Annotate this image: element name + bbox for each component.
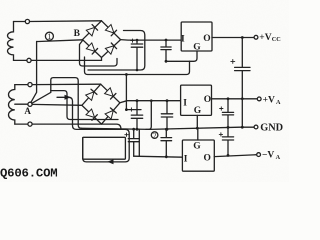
wire winding2 top lead <box>15 84 28 86</box>
node 2 circled label <box>151 132 158 140</box>
junction C1 top <box>136 39 139 42</box>
label +Vcc <box>259 33 280 43</box>
wire U2 output to +VA <box>212 98 258 100</box>
arrowhead left on annotation <box>107 159 113 164</box>
wire net1 riser down to center tap <box>31 42 37 103</box>
op-amp regulator U3 box <box>182 140 214 171</box>
junction C9 bottom <box>165 155 168 158</box>
capacitor C2 leads and plates <box>161 40 171 61</box>
wire vertical link ground to -VA input <box>138 129 140 156</box>
wire bridge1 DC+ to regulator U1 input <box>121 39 182 42</box>
wire U3 ground pin <box>197 128 199 140</box>
junction C5 top <box>166 99 169 102</box>
junction link top <box>150 99 153 102</box>
junction C5 bottom <box>166 128 169 131</box>
plus sign C1 <box>131 39 134 42</box>
wire bridge1 bottom vertex stub <box>101 58 103 61</box>
junction C3 at +VA rail <box>241 97 244 100</box>
wire winding1 bottom lead <box>14 59 27 61</box>
plus sign C7 <box>219 133 222 136</box>
junction C4 bottom <box>136 128 139 131</box>
junction C2 top <box>165 39 168 42</box>
winding T1 secondary coil <box>9 85 15 125</box>
wire current-path annotation with arrow <box>57 97 129 162</box>
junction net1 under bridge <box>125 73 128 76</box>
wire net1 long run under bridge1 <box>85 57 190 75</box>
wire winding1 top to bridge1 AC top <box>30 20 102 23</box>
junction C3 at ground <box>241 126 244 129</box>
wire winding2 bottom to bridge2 AC bottom <box>32 124 121 129</box>
label -VA <box>262 151 281 161</box>
terminal winding1 bottom <box>27 58 31 62</box>
terminal +VA <box>257 97 261 101</box>
junction C6 at ground <box>227 126 230 129</box>
annotation load box <box>83 137 126 159</box>
wire C3 negative to ground rail <box>241 99 243 127</box>
terminal winding2 top <box>28 83 32 87</box>
wire U1 ground pin elbow <box>166 51 197 61</box>
plus sign C8 <box>125 133 128 136</box>
wire -VA raw input to U3 <box>134 156 183 157</box>
label +VA <box>263 95 281 105</box>
diode D1 <box>86 25 97 36</box>
wire winding1 bottom to bridge1 AC bottom <box>31 59 101 61</box>
terminal winding2 center tap A <box>28 102 32 106</box>
capacitor C3 on +Vcc with leads <box>235 38 250 99</box>
wire net2 center tap riser <box>32 78 82 129</box>
terminal GND <box>254 125 258 129</box>
diode D2 <box>105 25 116 36</box>
junction +Vcc cap <box>241 36 244 39</box>
bridge rectifier D1-D4 (B) outline <box>83 21 121 58</box>
junction C4 top <box>136 99 139 102</box>
capacitor C7 leads and plates <box>222 127 233 155</box>
capacitor C4 leads and plates <box>131 101 142 130</box>
winding T1 primary-a coil <box>8 22 14 61</box>
diode D4 <box>105 43 116 54</box>
wire net1 drop to bridge2 side <box>126 75 141 110</box>
diode D6 <box>105 88 116 99</box>
capacitor C9 leads and plates <box>161 129 172 156</box>
capacitor C8 leads and plates <box>128 129 139 156</box>
diode D5 <box>86 89 97 100</box>
wire net1 B to riser <box>37 40 83 42</box>
junction C6 at +VA <box>227 97 230 100</box>
diode D8 <box>105 108 116 119</box>
wire B vertex down elbow <box>80 41 118 67</box>
terminal winding1 top <box>25 19 29 23</box>
junction C8 top <box>132 128 135 131</box>
capacitor C1 leads and plates <box>131 40 142 71</box>
capacitor C6 leads and plates <box>222 99 233 128</box>
arrowhead right on annotation <box>65 95 71 100</box>
junction C2 bottom G net <box>165 60 168 63</box>
wire link input to ground rail <box>146 101 151 130</box>
wire winding2 bottom lead <box>15 123 28 125</box>
wire net2 ground rail <box>81 127 255 129</box>
wire winding2 top to bridge2 AC top <box>32 83 101 85</box>
wire bridge2 DC+ to regulator U2 input <box>120 101 181 103</box>
capacitor C5 leads and plates <box>161 101 172 130</box>
junction C9 top <box>165 128 168 131</box>
op-amp regulator U2 box <box>181 85 212 115</box>
junction net1 drop bottom <box>125 108 128 111</box>
junction U2 U3 ground <box>196 127 199 130</box>
op-amp regulator U1 box <box>181 22 212 51</box>
terminal -VA <box>257 153 261 157</box>
terminal winding2 bottom <box>28 122 32 126</box>
plus sign C4 <box>130 108 133 111</box>
wire center tap to bridge2 AC left <box>32 103 82 106</box>
node 1 circled label <box>45 32 53 41</box>
wire U1 output to +Vcc <box>212 37 254 39</box>
plus sign C6 <box>220 107 223 110</box>
wire capacitor C1 negative loop <box>88 31 145 71</box>
wire winding1 top lead <box>14 21 26 23</box>
bridge rectifier D5-D8 outline <box>82 84 120 124</box>
plus sign C3 <box>231 59 235 63</box>
terminal +Vcc <box>254 35 258 39</box>
wire center tap lead <box>15 103 28 105</box>
wire U2 ground pin <box>196 115 198 128</box>
wire branch from riser under bridge2 <box>51 91 118 120</box>
diode D3 <box>86 43 97 54</box>
wire U3 output to -VA <box>214 155 256 157</box>
junction C7 at -VA <box>227 154 230 157</box>
diode D7 <box>86 109 97 120</box>
